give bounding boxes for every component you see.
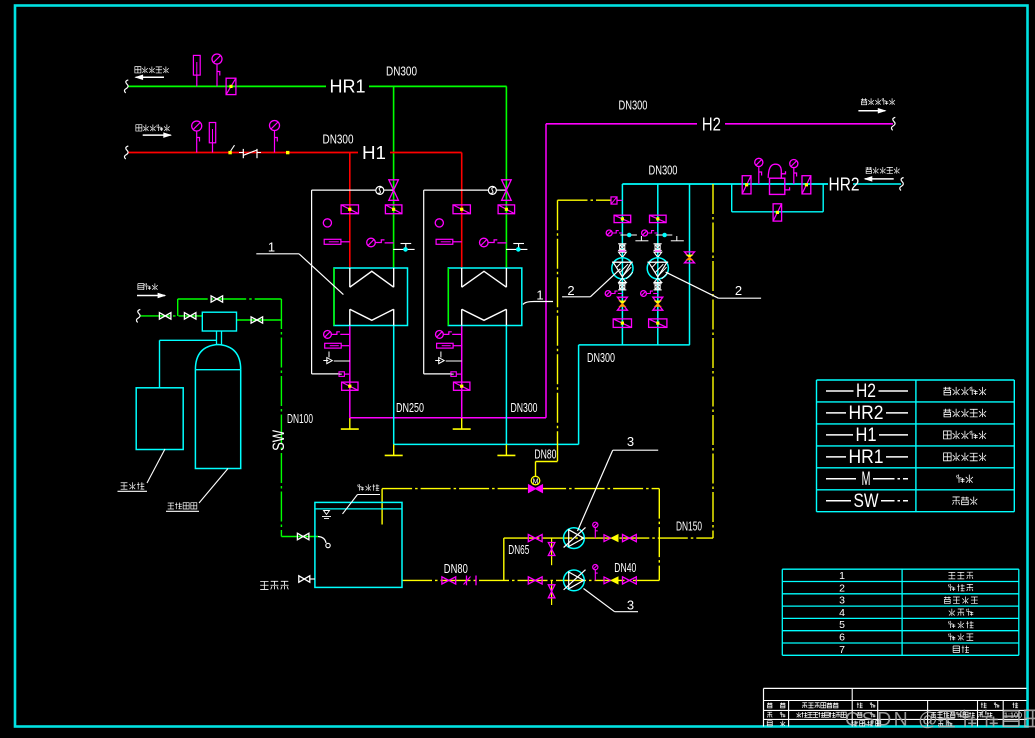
softener control box [202, 312, 236, 331]
pipe HX bottom cyan drops [394, 326, 507, 445]
valve upstream pump1 [528, 535, 542, 542]
pipe HR1 primary return header (green) [128, 86, 507, 268]
svg-text:SW: SW [269, 430, 288, 451]
pipe tap water line (green dash-dot) [140, 299, 318, 537]
svg-text:1: 1 [268, 240, 275, 255]
PRV bypass pipe (cyan) [732, 184, 824, 212]
tank drain valve to floor drain [299, 576, 315, 582]
svg-text:H1: H1 [856, 425, 877, 446]
shut-off valve + instruments on HX1 supply drop [323, 205, 358, 244]
drain stub+valve pump2 line [548, 580, 555, 605]
label brine tank (CJK) [121, 482, 145, 489]
text HR1 on pipe [326, 77, 369, 97]
steam trap symbol HX2 [488, 186, 496, 194]
text DN300 above H2 [619, 99, 648, 113]
parts row 4 分汽缸 [839, 607, 973, 619]
label 一次水回水 (CJK) [135, 66, 169, 73]
title block row3 texts [767, 720, 952, 726]
label floor drain (CJK) [260, 581, 288, 589]
node on H1 (yellow) [286, 151, 289, 154]
pressure gauge on HR1 [212, 54, 222, 86]
svg-text:DN300: DN300 [649, 164, 678, 178]
text HR2 on pipe [829, 174, 860, 194]
make-up water tank (item 5) [315, 502, 402, 587]
svg-text:5: 5 [839, 619, 845, 631]
svg-text:DN80: DN80 [534, 447, 556, 461]
svg-text:DN300: DN300 [323, 133, 354, 147]
svg-text:HR2: HR2 [849, 403, 884, 424]
pipe break at tap water west end [136, 309, 140, 322]
pipe DN150 make-up riser (yellow) [712, 184, 714, 538]
steam trap symbol HX1 [376, 186, 384, 194]
valve pump1 discharge [623, 535, 637, 542]
svg-text:SW: SW [854, 491, 879, 512]
label 自来水 (CJK) [138, 283, 158, 290]
svg-text:CSDN @: CSDN @ [845, 709, 940, 731]
pipe HR2 secondary return line (cyan) [622, 183, 901, 185]
svg-text:DN80: DN80 [444, 562, 468, 576]
pressure gauge pump2 discharge [593, 565, 598, 581]
bypass globe valve [773, 204, 782, 221]
softener outlet valve [251, 317, 263, 323]
thermometer on HR1 [193, 55, 200, 86]
pressure gauge 2 on H1 [270, 121, 280, 153]
svg-text:7: 7 [839, 644, 845, 656]
check valve pump2 [604, 577, 618, 584]
dirt separator branch 1 (item 2) [605, 215, 648, 327]
svg-text:6: 6 [839, 632, 845, 644]
pressure gauge pump1 discharge [593, 522, 598, 538]
parts row 6 补水泵 [839, 632, 973, 644]
parts row 5 补水箱 [839, 619, 973, 631]
parts row 2 除污器 [839, 582, 973, 594]
title block grid [764, 688, 1027, 726]
gauge west on PRV inlet [755, 158, 763, 184]
tank label leader [343, 495, 381, 514]
leader + label 3 (lower) [584, 589, 639, 613]
svg-text:HR1: HR1 [849, 447, 884, 468]
motor valve on tank fill line [529, 476, 543, 492]
text DN300 above HR1 [386, 65, 417, 79]
pressure gauge 1 on H1 [192, 121, 202, 153]
svg-text:H2: H2 [702, 115, 721, 135]
pipe DN65 connector (yellow) [503, 538, 505, 580]
pipe break at H1 west end [124, 146, 128, 159]
white frame piping HX1 [312, 190, 376, 374]
svg-text:DN300: DN300 [587, 351, 615, 365]
legend row H1 [826, 425, 986, 446]
drain funnel at return header east [497, 444, 515, 455]
svg-text:DN300: DN300 [386, 65, 417, 79]
label resin tank (CJK) [168, 503, 197, 510]
svg-text:DN300: DN300 [511, 401, 538, 415]
valve upstream pump2 [528, 577, 542, 584]
pipe air-vent stub (yellow) [558, 199, 612, 201]
pipe break at HR2 east end [900, 178, 904, 191]
flow arrow under 二次水供水 [858, 109, 885, 113]
tap water bypass valve [211, 296, 223, 302]
label 二次水供水 (CJK) [861, 98, 895, 105]
valve at tank outlet [442, 577, 456, 584]
brine tank [136, 388, 183, 450]
shut-off valve east of PRV [802, 176, 811, 194]
flow arrow under 二次水回水 [865, 177, 894, 181]
legend table grid [817, 380, 1015, 512]
label 一次水供水 (CJK) [136, 124, 170, 131]
text DN250 at outlet header [396, 401, 424, 415]
drain/instrument assembly below HX2 [435, 331, 470, 391]
svg-text:1: 1 [839, 570, 845, 582]
pipe H1 primary supply header (red) [128, 153, 462, 269]
watermark CSDN [845, 709, 1035, 731]
make-up pump 2 (item 3) [564, 570, 586, 591]
svg-text:HR2: HR2 [829, 174, 860, 194]
legend row H2 [826, 381, 986, 402]
leader + label 3 (upper) [578, 434, 659, 531]
union flanges at tank outlet [464, 576, 477, 586]
leader + label 1 (HX1) [256, 240, 343, 295]
text DN300 above HR2 header [649, 164, 678, 178]
water level symbol [322, 511, 331, 519]
text DN40 [614, 561, 636, 575]
relief valve on bypass branch [685, 252, 695, 263]
valve box on HR1 [226, 78, 236, 94]
svg-text:3: 3 [627, 598, 634, 613]
pipe tank fill line DN80 (yellow) [382, 489, 659, 581]
svg-text:HR1: HR1 [330, 77, 366, 97]
svg-text:DN150: DN150 [676, 520, 702, 534]
svg-text:DN100: DN100 [287, 412, 313, 426]
heat exchanger 1 [334, 268, 408, 326]
text DN300 at return header [511, 401, 538, 415]
white frame piping HX2 [424, 190, 489, 374]
brine tank pipe [160, 340, 217, 388]
svg-text:DN300: DN300 [619, 99, 648, 113]
pipe tank suction line (yellow) [402, 579, 659, 581]
svg-text:2: 2 [735, 283, 742, 298]
svg-text:M: M [862, 469, 871, 490]
pipe pump1 make-up discharge (yellow) [504, 537, 713, 539]
drain funnel at return header west [385, 444, 403, 455]
shut-off valve + instruments on HX2 supply drop [435, 205, 470, 244]
pipe DN250 secondary outlet header (magenta) [349, 417, 546, 419]
hose outlet into tank (white) [318, 537, 330, 548]
make-up pump 1 (item 3) [564, 527, 586, 548]
leader brine tank [118, 449, 166, 491]
leader + label 1 (HX2) [523, 288, 553, 305]
flow arrow under 一次水回水 [136, 75, 164, 79]
svg-text:3: 3 [839, 595, 845, 607]
svg-text:H1: H1 [362, 143, 386, 163]
thermometer on H1 [209, 123, 215, 153]
orifice meter on H1 [239, 149, 261, 158]
text DN100 at SW line [287, 412, 313, 426]
text H1 on pipe [358, 143, 390, 163]
pipe H2 secondary supply (magenta) [546, 124, 893, 418]
parts row 7 蝶阀 [839, 644, 969, 656]
legend row SW [826, 491, 977, 512]
drain stub+valve pump1 line [548, 538, 555, 565]
svg-text:H2: H2 [856, 381, 876, 402]
flow arrow under 一次水供水 [143, 133, 171, 137]
pipe pump discharge header (cyan) [579, 184, 690, 345]
text DN150 [676, 520, 702, 534]
svg-text:4: 4 [839, 607, 845, 619]
SW line valve [297, 533, 309, 540]
svg-text:3: 3 [627, 434, 634, 449]
svg-text:2: 2 [567, 283, 574, 298]
air vent box [611, 197, 622, 204]
pipe make-up DN80 drop (yellow) [536, 200, 558, 476]
svg-text:M: M [533, 479, 539, 486]
dirt separator branch 2 (item 2) [641, 215, 684, 327]
text DN80 upper [534, 447, 556, 461]
text H2 on pipe [697, 115, 725, 135]
text DN80 lower [444, 562, 468, 576]
gate valve + instruments on HX2 return drop [480, 180, 528, 251]
label 二次水回水 (CJK) [866, 167, 900, 174]
tap water valve 1 [159, 313, 171, 320]
parts row 3 循环水泵 [839, 595, 978, 607]
pressure reducing valve body [770, 178, 790, 194]
text SW rotated [269, 430, 288, 451]
check valve pump1 [604, 535, 618, 542]
flow arrow under 自来水 [137, 293, 165, 297]
pipe HX bottom magenta drops [350, 326, 462, 418]
legend row HR1 [826, 447, 986, 468]
softener neck [217, 331, 222, 345]
text DN65 [508, 543, 529, 557]
svg-text:2: 2 [839, 582, 845, 594]
svg-text:DN40: DN40 [614, 561, 636, 575]
legend row HR2 [826, 403, 986, 424]
pipe break at H2 east end [891, 117, 895, 130]
title block row1 texts [767, 702, 1018, 708]
leader + label 2 (west) [562, 269, 620, 298]
shut-off valve west of PRV [742, 176, 751, 194]
text DN300 above H1 [323, 133, 354, 147]
pipe break at HR1 west end [124, 80, 128, 93]
text DN300 at pump header [587, 351, 615, 365]
tap water valve 2 [184, 313, 196, 320]
heat exchanger 2 [448, 268, 522, 326]
parts list table grid [782, 569, 1019, 655]
valve pump2 discharge [623, 577, 637, 584]
pipe secondary return header (cyan) [394, 443, 579, 445]
legend row M [826, 469, 973, 490]
gate valve + instruments on HX1 return drop [367, 180, 415, 251]
sensor point on H1 (yellow node) [228, 145, 234, 154]
leader + label 2 (east) [666, 272, 762, 298]
svg-text:DN65: DN65 [508, 543, 529, 557]
drain funnel at DN250 header east [453, 418, 471, 429]
syphon loop on PRV [768, 164, 785, 178]
title block row2 texts [767, 711, 1022, 720]
parts row 1 换热器 [839, 570, 973, 582]
label tank (CJK) [358, 484, 380, 491]
resin tank (cyan cylinder) [195, 345, 240, 469]
pipe pump suction drop (cyan) [578, 345, 580, 445]
gauge east on PRV outlet [790, 160, 798, 185]
svg-text:DN250: DN250 [396, 401, 424, 415]
leader resin tank [166, 469, 228, 512]
drain funnel at DN250 header west [341, 418, 359, 429]
svg-text:1: 1 [536, 288, 543, 303]
drain/instrument assembly below HX1 [323, 331, 358, 391]
